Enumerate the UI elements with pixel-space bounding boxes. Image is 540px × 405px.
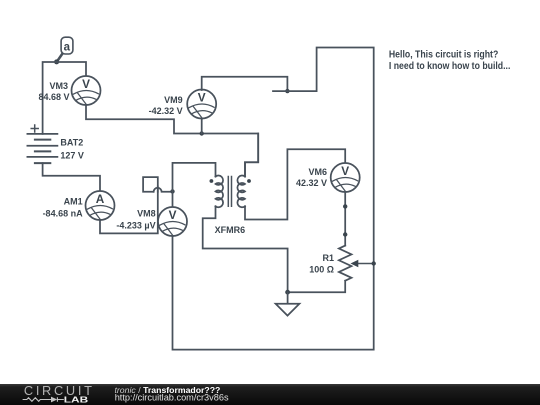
junction dot VM8 top: [170, 189, 174, 193]
wire battery+ to VM3 top: [43, 62, 86, 134]
junction dot wiper to right rail: [372, 261, 376, 265]
svg-text:-4.233 µV: -4.233 µV: [116, 221, 155, 231]
transformer core: [228, 177, 231, 207]
svg-text:Hello, This circuit is right?: Hello, This circuit is right?: [389, 50, 498, 61]
ground symbol: [276, 292, 300, 315]
wire VM9 top to right node: [202, 77, 288, 91]
svg-text:-84.68 nA: -84.68 nA: [43, 209, 84, 219]
junction dot below VM6: [343, 204, 347, 208]
wire hop over vertical: [154, 188, 173, 192]
wire VM9 bottom stub: [201, 118, 203, 134]
R1 wiper arrow: [351, 260, 374, 268]
wire junction down to VM8: [172, 191, 174, 207]
svg-text:A: A: [96, 192, 105, 206]
svg-text:LAB: LAB: [64, 395, 89, 404]
footer bar: [0, 384, 540, 405]
svg-text:V: V: [198, 90, 206, 104]
box component: [143, 177, 158, 192]
transformer XFMR6 primary winding: [216, 176, 224, 208]
svg-text:http://circuitlab.com/cr3v86s: http://circuitlab.com/cr3v86s: [115, 392, 229, 402]
wire VM3 bottom to VM9 bottom node and to XFMR secondary top: [86, 105, 258, 177]
potentiometer R1 zigzag: [339, 246, 352, 281]
svg-text:127 V: 127 V: [60, 151, 84, 161]
logo diode: [57, 397, 63, 402]
ammeter AM1: [86, 191, 115, 220]
wire R1 bottom to ground node: [288, 281, 346, 293]
wire XFMR secondary bottom to VM6 top: [245, 149, 345, 219]
logo resistor zigzag: [23, 397, 64, 403]
junction dot at flag: [54, 59, 59, 64]
wire VM6 bottom to R1: [344, 192, 346, 246]
svg-text:V: V: [82, 77, 90, 91]
battery BAT2: [27, 125, 57, 163]
svg-text:-42.32 V: -42.32 V: [149, 106, 183, 116]
wire AM1 bottom to box: [100, 187, 158, 234]
svg-text:V: V: [169, 208, 177, 222]
junction dot above R1: [343, 232, 347, 236]
transformer XFMR6 secondary winding: [237, 176, 245, 208]
wire junction up to XFMR primary top: [173, 163, 216, 192]
wire battery- to AM1 top: [43, 163, 100, 191]
svg-text:100 Ω: 100 Ω: [309, 265, 334, 275]
svg-text:VM3: VM3: [49, 81, 68, 91]
svg-text:a: a: [64, 41, 71, 53]
voltmeter VM9: [187, 90, 216, 119]
junction dot right node: [285, 89, 289, 93]
voltmeter VM8: [158, 207, 187, 236]
wire XFMR primary bottom to ground node: [203, 206, 288, 292]
svg-text:VM8: VM8: [137, 208, 156, 218]
junction dot VM9 bottom: [200, 131, 204, 135]
svg-text:XFMR6: XFMR6: [215, 225, 246, 235]
junction dot ground node: [285, 290, 290, 295]
svg-text:42.32 V: 42.32 V: [296, 178, 327, 188]
node flag a: [57, 37, 73, 61]
svg-text:BAT2: BAT2: [60, 137, 83, 147]
voltmeter VM6: [331, 163, 360, 192]
svg-text:R1: R1: [322, 253, 334, 263]
svg-text:V: V: [341, 164, 349, 178]
wire stub and big right loop: [173, 48, 374, 350]
voltmeter VM3: [72, 76, 101, 105]
svg-text:84.68 V: 84.68 V: [38, 92, 69, 102]
svg-text:AM1: AM1: [64, 197, 83, 207]
wire XFMR secondary top riser: [245, 134, 258, 177]
svg-text:VM6: VM6: [308, 167, 327, 177]
svg-text:VM9: VM9: [164, 95, 183, 105]
svg-text:I need to know how to build...: I need to know how to build...: [389, 61, 511, 72]
transformer phase dots: [210, 179, 214, 183]
